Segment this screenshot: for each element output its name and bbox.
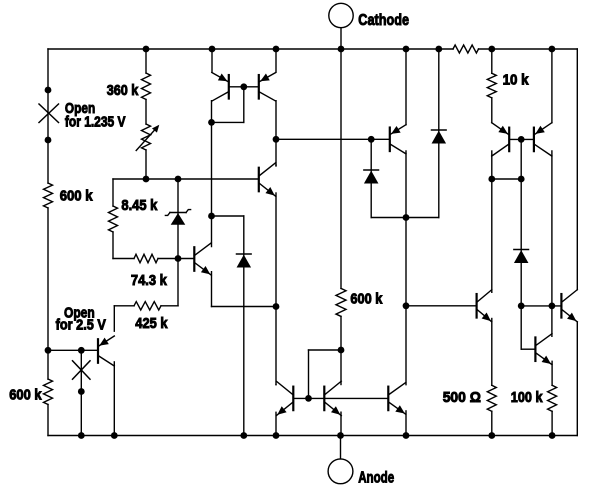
svg-text:600 k: 600 k bbox=[9, 387, 42, 404]
svg-text:425 k: 425 k bbox=[135, 315, 168, 332]
svg-text:Anode: Anode bbox=[358, 469, 394, 486]
svg-text:Cathode: Cathode bbox=[358, 12, 409, 29]
svg-text:600 k: 600 k bbox=[60, 187, 93, 204]
svg-text:10 k: 10 k bbox=[503, 71, 530, 88]
svg-text:for 2.5 V: for 2.5 V bbox=[56, 317, 106, 334]
svg-text:100 k: 100 k bbox=[511, 389, 543, 406]
svg-text:74.3 k: 74.3 k bbox=[131, 272, 168, 289]
svg-text:8.45 k: 8.45 k bbox=[121, 197, 158, 214]
svg-text:for 1.235 V: for 1.235 V bbox=[65, 114, 126, 131]
svg-text:360 k: 360 k bbox=[107, 82, 139, 99]
svg-text:600 k: 600 k bbox=[350, 291, 383, 308]
svg-text:500 Ω: 500 Ω bbox=[443, 389, 481, 406]
